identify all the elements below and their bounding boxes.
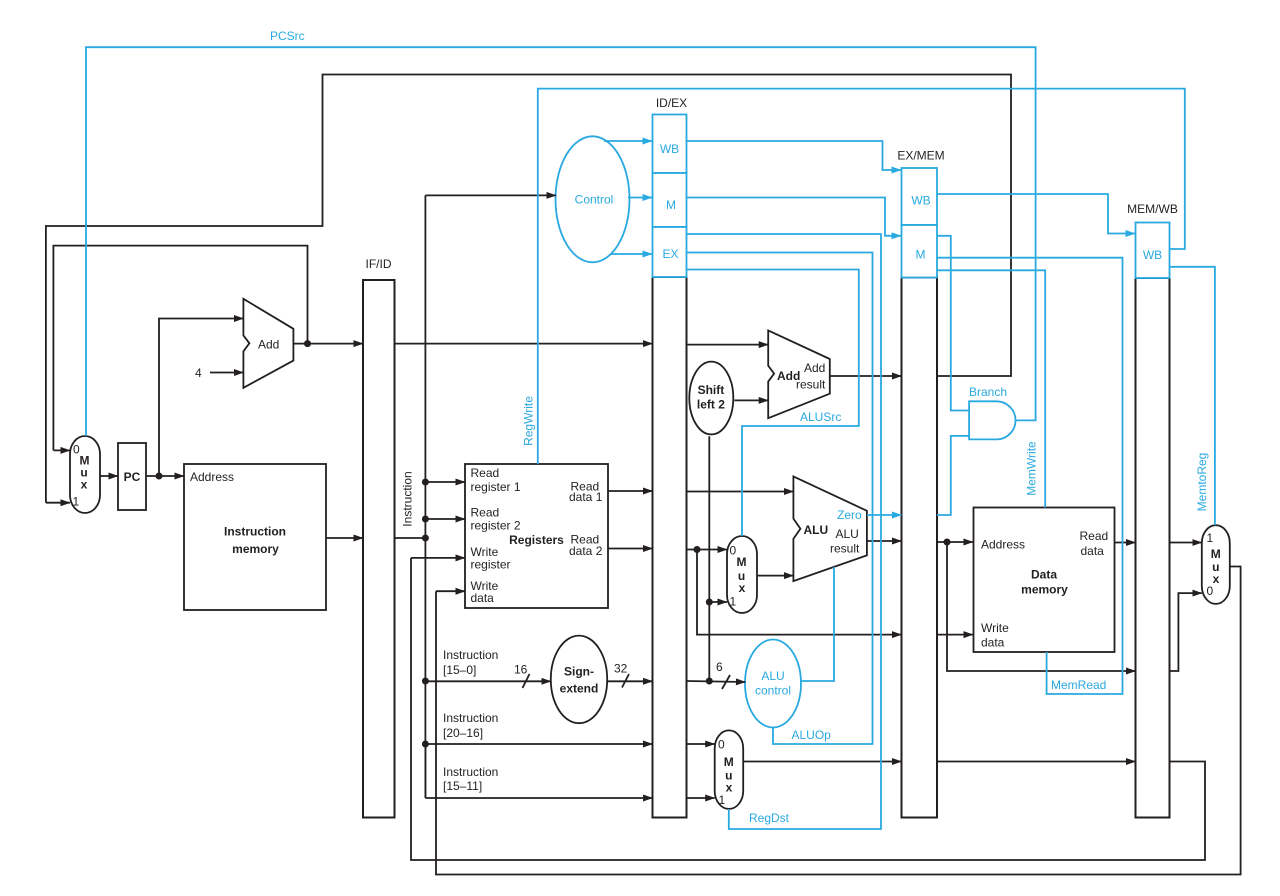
svg-text:register 2: register 2 <box>471 519 521 533</box>
junction dot on Add output <box>304 340 311 347</box>
wire [20-16] ID/EX to RegDst mux 0 <box>687 743 715 745</box>
wire MemtoReg from MEM/WB to mux <box>1170 267 1215 525</box>
wire write data EX/MEM to data memory <box>937 634 973 636</box>
junction dot ALU result <box>944 539 951 546</box>
wire branch to ALUSrc mux 1 <box>709 601 727 603</box>
svg-text:MemRead: MemRead <box>1051 678 1106 692</box>
junction dot on vertical at mux 1 <box>706 599 713 606</box>
wire PC to instruction memory Address <box>146 475 184 477</box>
pipeline register IF/ID <box>363 257 395 818</box>
svg-text:Control: Control <box>575 193 614 207</box>
svg-text:M: M <box>1211 547 1221 561</box>
wire read data 2 down to write data into EX/MEM <box>697 550 902 635</box>
svg-text:Add: Add <box>804 361 825 375</box>
svg-text:Add: Add <box>258 338 279 352</box>
wire Read data 1 from ID/EX to ALU <box>687 491 794 493</box>
wire instruction [20-16] to ID/EX <box>425 711 652 744</box>
wire vertical sign-extend branch to shift left 2 <box>708 436 710 681</box>
svg-text:memory: memory <box>1021 583 1068 597</box>
wire Zero from EX/MEM to AND gate <box>937 436 969 515</box>
wire Read data 2 from ID/EX to ALUSrc mux 0 <box>687 549 728 551</box>
svg-text:PC: PC <box>124 470 141 484</box>
svg-text:result: result <box>796 378 826 392</box>
svg-text:memory: memory <box>232 542 279 556</box>
svg-text:M: M <box>737 555 747 569</box>
sign-extend oval <box>551 636 607 724</box>
svg-text:4: 4 <box>195 366 202 380</box>
svg-text:ALU: ALU <box>836 527 859 541</box>
wire instruction to Control <box>425 194 556 196</box>
wire Zero from ALU to EX/MEM <box>837 508 902 522</box>
AND gate (branch) <box>969 401 1015 439</box>
wire ALU result from EX/MEM to data memory Address <box>937 541 973 543</box>
svg-text:data: data <box>1081 544 1105 558</box>
wire branch target feedback from EX/MEM to mux 1 input <box>46 75 1011 503</box>
instruction memory <box>184 464 326 610</box>
ID/EX WB field <box>653 115 687 174</box>
svg-text:Address: Address <box>190 470 234 484</box>
svg-text:Read: Read <box>1080 529 1109 543</box>
svg-text:x: x <box>81 478 88 492</box>
wire ALU control to ALU <box>801 567 834 681</box>
wire ALU result to EX/MEM <box>867 540 902 542</box>
svg-text:[20–16]: [20–16] <box>443 726 483 740</box>
svg-text:Address: Address <box>981 538 1025 552</box>
mux M3 (RegDst mux) <box>715 730 744 809</box>
wire PCSrc from AND gate to PC mux <box>86 29 1036 436</box>
svg-text:ALU: ALU <box>761 669 784 683</box>
svg-text:ALUSrc: ALUSrc <box>800 410 841 424</box>
wire shift left 2 to branch adder <box>734 399 768 401</box>
svg-text:data 1: data 1 <box>569 490 603 504</box>
mux M4 (MemtoReg mux) <box>1202 525 1230 604</box>
svg-text:M: M <box>666 198 676 212</box>
adder Add (PC+4) <box>243 299 293 388</box>
wire WB signals ID/EX to EX/MEM <box>687 141 902 170</box>
svg-text:Instruction: Instruction <box>443 765 498 779</box>
svg-text:WB: WB <box>911 194 930 208</box>
ALU <box>793 476 867 581</box>
svg-text:x: x <box>1213 572 1220 586</box>
svg-text:1: 1 <box>73 495 80 509</box>
svg-text:data 2: data 2 <box>569 544 603 558</box>
svg-text:MemtoReg: MemtoReg <box>1195 453 1209 512</box>
instruction bus vertical <box>424 195 426 798</box>
MEM/WB WB field <box>1136 223 1170 279</box>
junction dot on PC output <box>156 473 163 480</box>
svg-text:x: x <box>726 781 733 795</box>
mux M1 (PC source mux) <box>70 436 100 513</box>
svg-text:1: 1 <box>719 793 726 807</box>
svg-text:Instruction: Instruction <box>224 525 286 539</box>
svg-text:result: result <box>830 542 860 556</box>
svg-text:Instruction: Instruction <box>443 648 498 662</box>
shift left 2 oval <box>689 362 733 435</box>
svg-text:WB: WB <box>1143 248 1162 262</box>
svg-text:ID/EX: ID/EX <box>656 96 687 110</box>
label Instruction (rotated) <box>401 471 415 526</box>
svg-text:0: 0 <box>718 738 725 752</box>
wire instruction memory to IF/ID <box>326 537 363 539</box>
wire ALU result bypass to MEM/WB <box>947 542 1136 671</box>
wire mux to PC <box>100 475 118 477</box>
wire instruction [15-0] to sign-extend, width 16 <box>425 648 550 688</box>
wire ALUSrc mux to ALU <box>757 575 793 577</box>
wire bypass from MEM/WB to mux 0 <box>1170 593 1202 671</box>
wire sign-extend to ID/EX, width 32 <box>607 662 652 688</box>
wire Add output to IF/ID <box>293 343 363 345</box>
svg-text:EX/MEM: EX/MEM <box>897 149 944 163</box>
svg-text:RegDst: RegDst <box>749 811 790 825</box>
svg-text:1: 1 <box>730 595 737 609</box>
wire M signals ID/EX to EX/MEM <box>687 198 902 236</box>
svg-text:MemWrite: MemWrite <box>1025 441 1039 496</box>
wire Branch signal from EX/MEM M to AND gate <box>937 236 1007 411</box>
junction dot sign-extend line <box>706 678 713 685</box>
wire MemRead from EX/MEM M to data memory <box>937 258 1123 694</box>
wire WB signals EX/MEM to MEM/WB <box>937 194 1135 234</box>
wire branch adder result to EX/MEM <box>830 375 902 377</box>
svg-text:Read: Read <box>471 506 500 520</box>
ALU control oval <box>745 640 801 728</box>
svg-text:0: 0 <box>1207 584 1214 598</box>
svg-text:PCSrc: PCSrc <box>270 29 305 43</box>
svg-text:IF/ID: IF/ID <box>366 257 392 271</box>
value 4 into Add <box>195 366 243 380</box>
wire instruction to Read register 1 <box>425 481 465 483</box>
svg-text:control: control <box>755 684 791 698</box>
wire RegDst control from ID/EX EX to RegDst mux <box>687 234 882 829</box>
svg-text:[15–11]: [15–11] <box>443 779 482 793</box>
svg-text:extend: extend <box>560 682 599 696</box>
wire write register number EX/MEM to MEM/WB <box>937 761 1136 763</box>
wire [15-11] ID/EX to RegDst mux 1 <box>687 797 715 799</box>
svg-text:M: M <box>724 755 734 769</box>
EX/MEM WB field <box>902 168 938 225</box>
svg-text:data: data <box>471 591 495 605</box>
svg-text:register: register <box>471 558 511 572</box>
svg-text:[15–0]: [15–0] <box>443 663 476 677</box>
wire instruction to Read register 2 <box>425 518 465 520</box>
svg-text:Instruction: Instruction <box>443 711 498 725</box>
wire PC to Add input <box>159 319 243 477</box>
wire RegDst mux output to EX/MEM <box>743 761 901 763</box>
wire IF/ID to instruction bus <box>395 537 426 539</box>
wire MemWrite from EX/MEM M to data memory <box>937 270 1045 507</box>
wire read data from MEM/WB to mux 1 <box>1170 542 1202 544</box>
wire ALUOp from ID/EX EX to ALU control <box>687 253 873 745</box>
wire write register number MEM/WB to Registers write register <box>411 558 1205 860</box>
wire Control to ID/EX EX <box>611 253 652 255</box>
wire sign-extend line from ID/EX with width 6 to ALU control <box>687 660 746 689</box>
ID/EX EX field <box>653 227 687 277</box>
svg-text:ALUOp: ALUOp <box>792 728 832 742</box>
pipeline register EX/MEM (black section) <box>897 149 944 818</box>
svg-text:Registers: Registers <box>509 533 564 547</box>
svg-text:Write: Write <box>981 621 1009 635</box>
svg-text:x: x <box>739 581 746 595</box>
svg-text:MEM/WB: MEM/WB <box>1127 202 1178 216</box>
pipeline register ID/EX (black section) <box>653 96 688 818</box>
svg-text:ALU: ALU <box>804 523 829 537</box>
svg-text:Instruction: Instruction <box>401 471 415 526</box>
svg-text:M: M <box>916 248 926 262</box>
svg-text:6: 6 <box>716 660 723 674</box>
wire Read data 2 to ID/EX <box>608 548 653 550</box>
junction dot read data 2 <box>694 546 701 553</box>
pipeline register MEM/WB (black section) <box>1127 202 1178 818</box>
control unit oval <box>556 136 630 262</box>
EX/MEM M field <box>902 225 938 278</box>
wire MemtoReg mux output to Registers write data <box>436 567 1241 875</box>
wire RegWrite from MEM/WB to Registers <box>522 89 1185 464</box>
svg-text:left 2: left 2 <box>697 398 725 412</box>
wire Read data 1 to ID/EX <box>608 490 653 492</box>
svg-text:32: 32 <box>614 662 628 676</box>
adder Add (branch target) <box>768 330 830 418</box>
register PC <box>118 443 146 510</box>
junction dots on instruction bus <box>422 479 429 748</box>
wire PC+4 from IF/ID to ID/EX <box>395 343 653 345</box>
svg-text:Data: Data <box>1031 568 1057 582</box>
wire Control to ID/EX WB <box>604 140 652 142</box>
svg-text:1: 1 <box>1207 531 1214 545</box>
wire data memory Read data to MEM/WB <box>1115 542 1136 544</box>
wire PC+4 from ID/EX to branch adder <box>687 344 769 346</box>
svg-text:0: 0 <box>730 544 737 558</box>
svg-text:Sign-: Sign- <box>564 665 594 679</box>
wire ALUSrc from ID/EX EX to ALUSrc mux <box>687 270 859 537</box>
svg-text:data: data <box>981 636 1005 650</box>
wire Control to ID/EX M <box>628 197 652 199</box>
svg-text:RegWrite: RegWrite <box>522 396 536 446</box>
wire PC+4 loop to mux 0 input <box>53 246 307 451</box>
svg-text:Zero: Zero <box>837 508 862 522</box>
svg-text:Branch: Branch <box>969 385 1007 399</box>
registers file <box>465 464 608 608</box>
svg-text:WB: WB <box>660 142 679 156</box>
svg-text:register 1: register 1 <box>471 480 521 494</box>
data memory <box>974 508 1115 653</box>
svg-text:EX: EX <box>662 247 678 261</box>
wire instruction [15-11] to ID/EX <box>425 744 652 798</box>
svg-text:16: 16 <box>514 663 528 677</box>
mux M2 (ALUSrc mux) <box>727 536 757 613</box>
ID/EX M field <box>653 173 687 227</box>
svg-text:Read: Read <box>471 466 500 480</box>
svg-text:Shift: Shift <box>698 383 725 397</box>
